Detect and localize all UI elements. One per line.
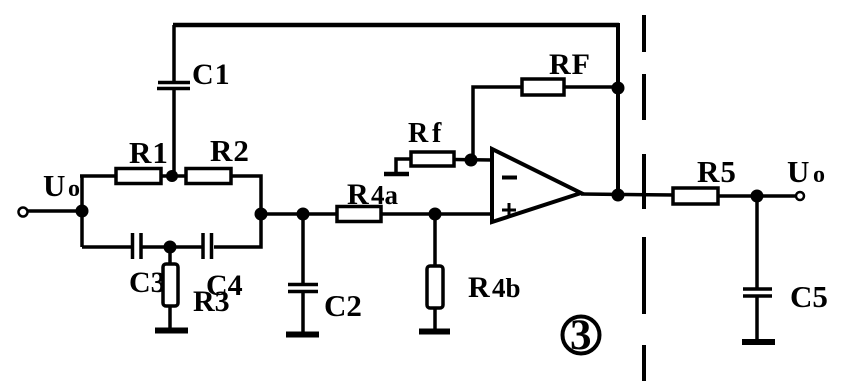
capacitor C5 [743, 196, 772, 341]
node C3/C4/R3 junction [164, 241, 177, 254]
wire Rf to inverting input [454, 158, 492, 162]
wire top feedback [173, 23, 619, 28]
terminal input Uo [19, 208, 28, 217]
wire RF loop left/up [473, 87, 522, 158]
wire op-amp output [581, 194, 675, 195]
wire input lead [27, 209, 80, 213]
svg-text:R: R [408, 118, 429, 149]
dashed separator line [642, 15, 646, 381]
svg-text:C5: C5 [790, 279, 828, 314]
wire main row to op-amp [261, 212, 492, 216]
node output junction [612, 189, 625, 202]
resistor RF [522, 79, 564, 95]
ground R3 [155, 328, 188, 334]
resistor Rf [411, 152, 454, 166]
wire right vertical (feedback to output node) [616, 23, 620, 195]
svg-text:U: U [787, 154, 809, 189]
wire Rf ground lead [396, 159, 411, 173]
capacitor C1 [157, 25, 190, 177]
terminal bar C5 bottom [742, 339, 775, 345]
svg-text:R: R [468, 271, 490, 304]
svg-text:R: R [347, 178, 369, 211]
ground Rf [384, 172, 409, 177]
capacitor C4 [203, 233, 212, 259]
svg-text:o: o [68, 176, 80, 202]
svg-text:4a: 4a [371, 180, 399, 210]
wire bottom left to C3 [82, 245, 132, 249]
terminal output Uo [796, 192, 804, 200]
wire RF to right vertical [564, 85, 618, 89]
svg-text:R5: R5 [697, 154, 737, 189]
resistor R3 [163, 247, 178, 329]
svg-text:C2: C2 [324, 288, 362, 323]
wire to R1 [80, 174, 118, 178]
resistor R4b [427, 214, 443, 330]
svg-text:U: U [43, 168, 65, 203]
capacitor C3 [133, 233, 142, 259]
op-amp U1 [492, 149, 581, 222]
label R4b [468, 271, 521, 304]
wire R5 to output terminal [718, 194, 795, 198]
resistor R2 [186, 169, 231, 184]
resistor R4a [337, 207, 381, 222]
svg-text:R3: R3 [193, 285, 230, 318]
label U o (output) [787, 154, 825, 189]
svg-text:o: o [813, 162, 825, 188]
svg-text:RF: RF [549, 48, 591, 81]
svg-text:R1: R1 [129, 135, 169, 170]
resistor R5 [673, 188, 718, 204]
svg-text:f: f [432, 118, 442, 149]
wire C3 to C4 [142, 245, 202, 249]
node C1/R1/R2 junction [166, 170, 178, 182]
svg-text:R2: R2 [210, 133, 250, 168]
resistor R1 [116, 169, 161, 184]
wire left vertical of twin-T [80, 176, 84, 247]
node C2 junction [297, 208, 310, 221]
wire R1 to R2 [161, 174, 186, 178]
capacitor C2 [288, 214, 318, 333]
node C5 junction [751, 190, 764, 203]
node R4b junction [429, 208, 442, 221]
label Rf [408, 118, 442, 149]
node input junction [76, 205, 89, 218]
node inverting input junction [465, 154, 478, 167]
label R4a [347, 178, 399, 211]
wire R2 right, down right side, to C4 [214, 176, 261, 247]
label U o (input) [43, 168, 80, 203]
svg-text:C1: C1 [192, 58, 231, 91]
ground R4b [419, 329, 450, 335]
ground C2 [286, 332, 319, 338]
svg-text:C3: C3 [129, 266, 166, 299]
circled figure number 3 [563, 312, 600, 359]
node twin-T output junction [255, 208, 268, 221]
node RF/feedback junction [612, 82, 625, 95]
svg-text:3: 3 [570, 312, 592, 359]
svg-text:4b: 4b [492, 273, 521, 303]
